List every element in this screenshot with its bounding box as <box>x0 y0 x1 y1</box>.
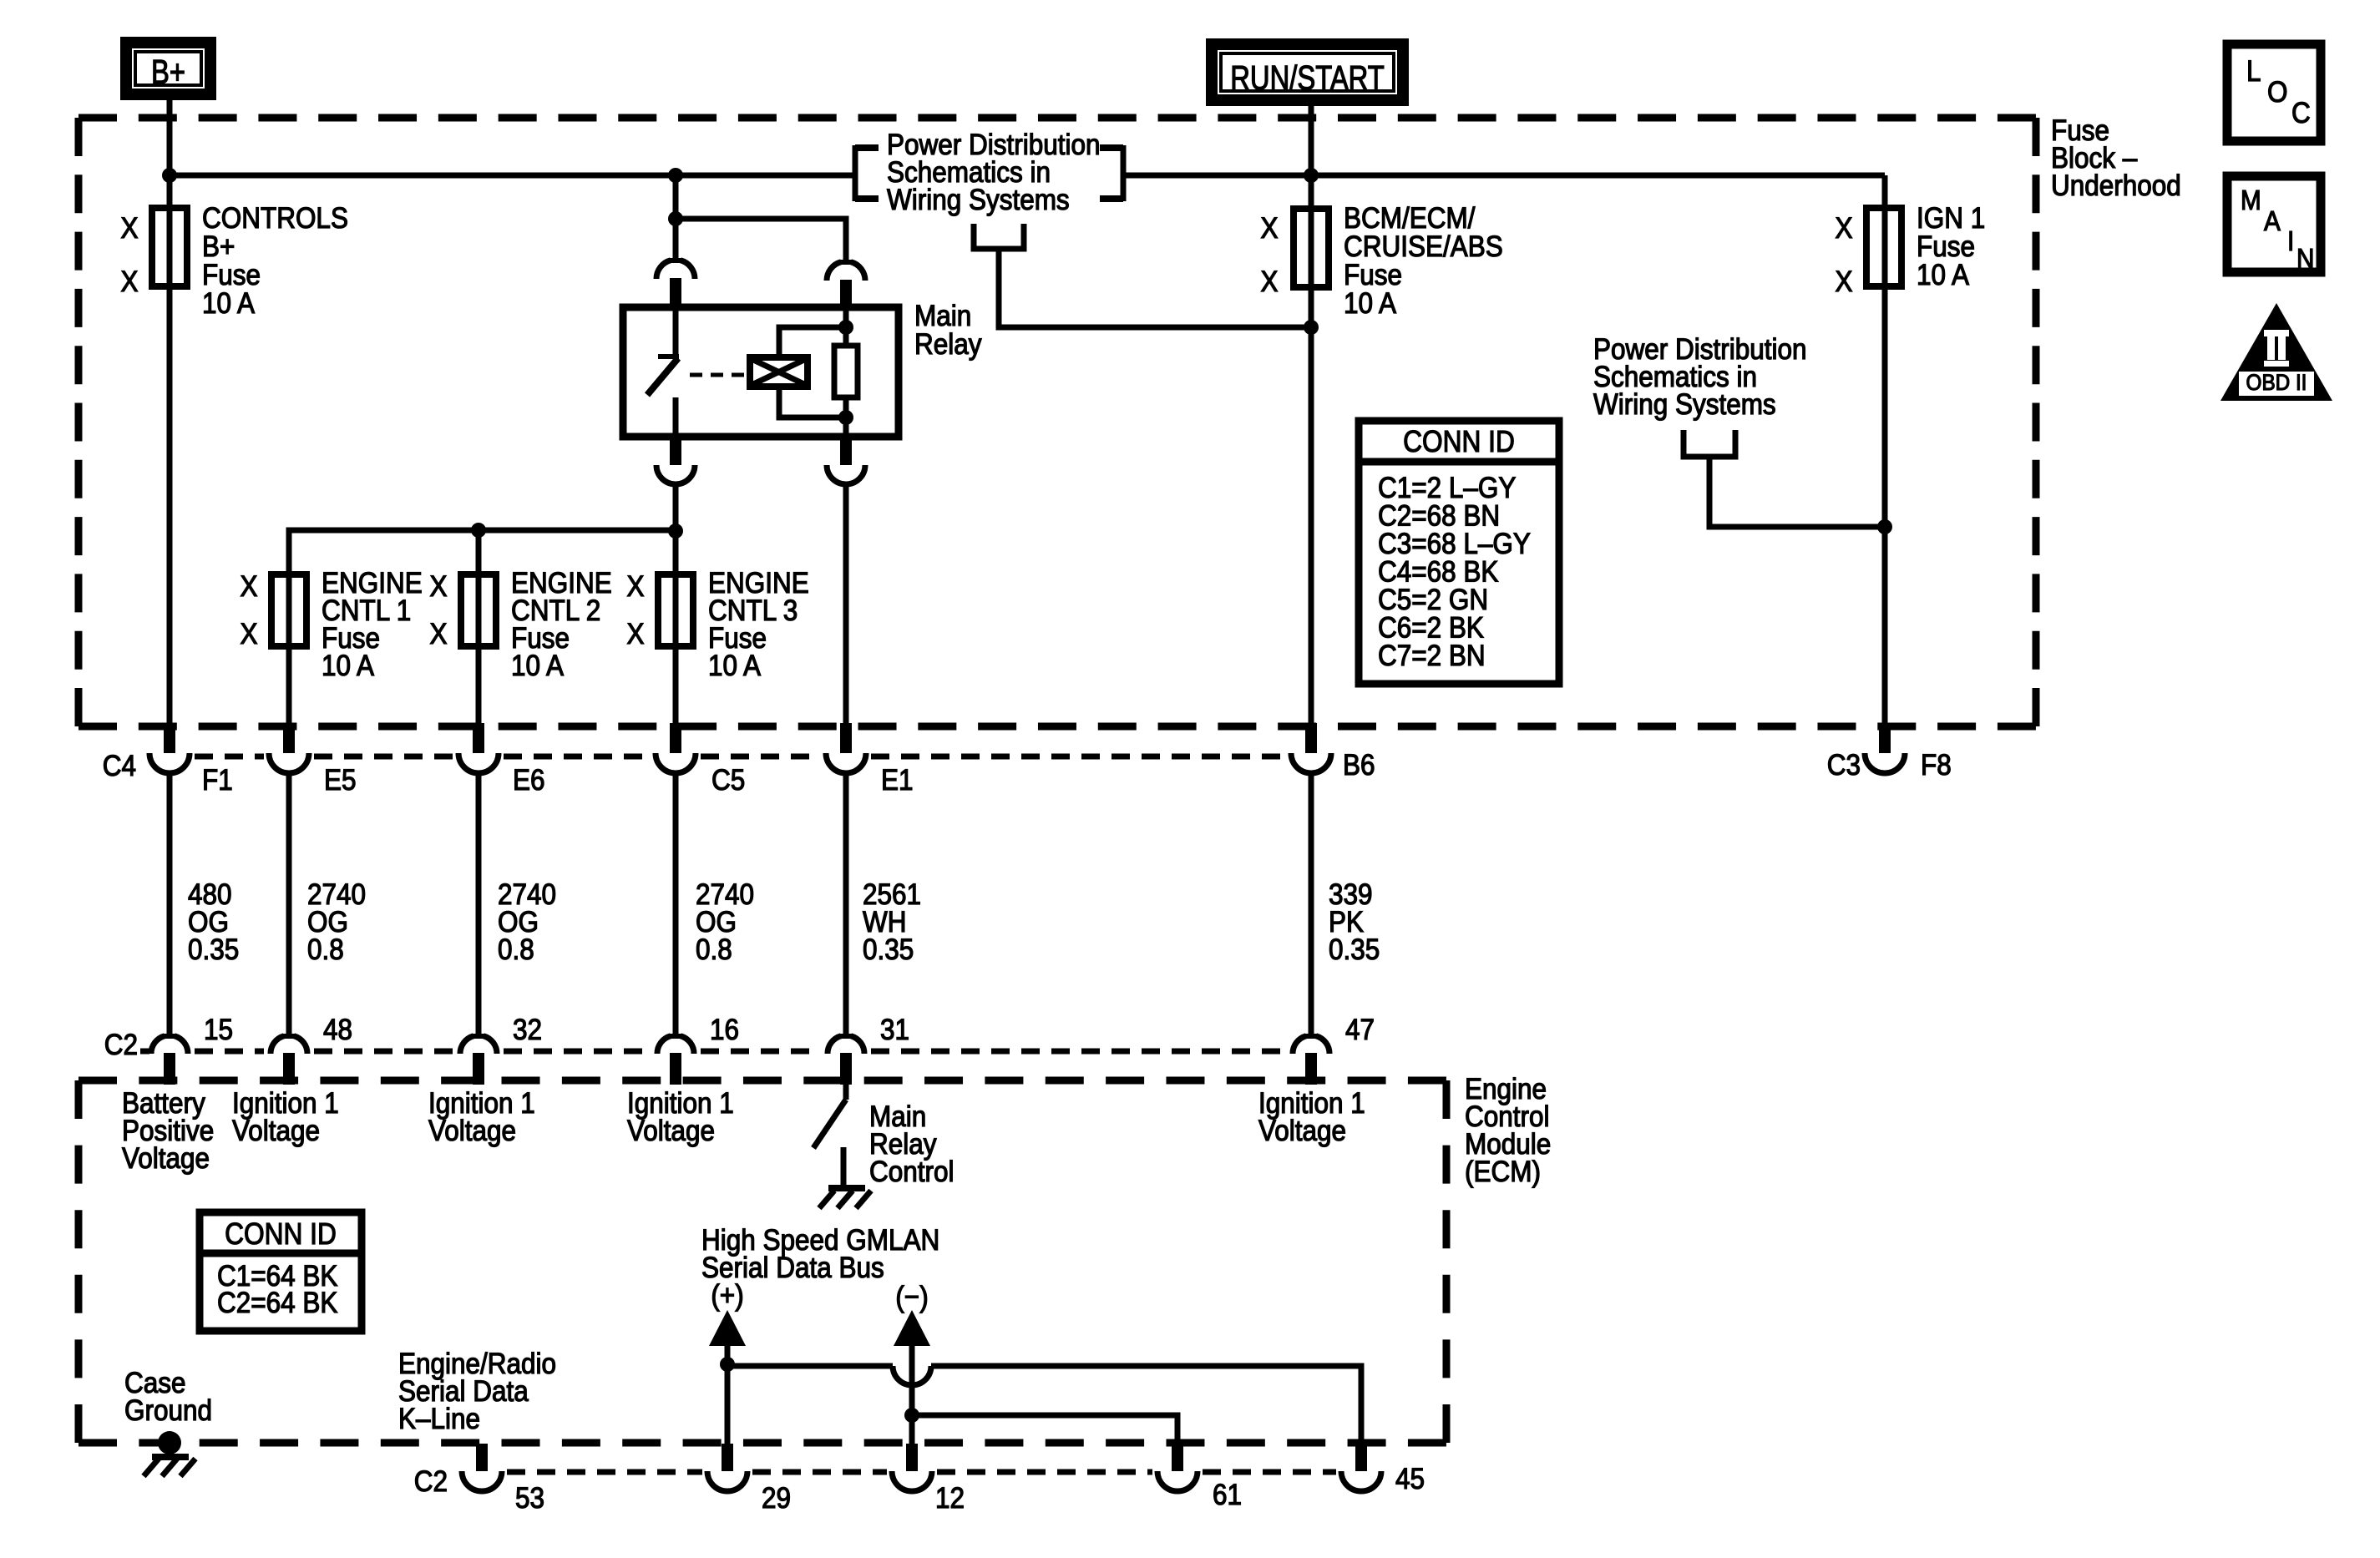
svg-text:0.8: 0.8 <box>498 934 534 967</box>
svg-text:0.35: 0.35 <box>188 934 239 967</box>
svg-text:X: X <box>1835 266 1852 299</box>
svg-text:K–Line: K–Line <box>398 1404 480 1436</box>
svg-text:F1: F1 <box>202 765 233 797</box>
svg-text:X: X <box>1835 213 1852 245</box>
svg-text:10 A: 10 A <box>708 650 762 683</box>
svg-text:0.35: 0.35 <box>1329 934 1380 967</box>
svg-text:X: X <box>120 213 138 245</box>
svg-text:X: X <box>626 619 644 651</box>
svg-text:O: O <box>2267 77 2287 109</box>
svg-text:RUN/START: RUN/START <box>1230 58 1385 96</box>
svg-text:X: X <box>240 619 257 651</box>
svg-text:X: X <box>626 571 644 604</box>
svg-text:C2=64 BK: C2=64 BK <box>217 1287 337 1320</box>
svg-text:10 A: 10 A <box>202 288 256 321</box>
svg-text:E1: E1 <box>881 765 914 797</box>
svg-text:E6: E6 <box>513 765 545 797</box>
svg-text:C2: C2 <box>104 1029 138 1062</box>
svg-text:N: N <box>2296 244 2314 275</box>
svg-text:10 A: 10 A <box>511 650 565 683</box>
svg-text:I: I <box>2287 226 2294 257</box>
svg-text:48: 48 <box>323 1014 352 1047</box>
svg-text:M: M <box>2241 185 2261 216</box>
svg-text:Voltage: Voltage <box>232 1115 320 1148</box>
svg-text:CONN ID: CONN ID <box>225 1217 337 1251</box>
svg-text:L: L <box>2246 56 2261 89</box>
svg-text:16: 16 <box>710 1014 739 1047</box>
svg-text:31: 31 <box>880 1014 909 1047</box>
svg-text:OBD II: OBD II <box>2246 371 2307 395</box>
svg-text:E5: E5 <box>324 765 357 797</box>
svg-text:Voltage: Voltage <box>428 1115 516 1148</box>
svg-text:X: X <box>429 619 447 651</box>
svg-text:C4: C4 <box>103 751 136 783</box>
svg-text:X: X <box>1260 213 1278 245</box>
svg-text:15: 15 <box>204 1014 233 1047</box>
svg-text:F8: F8 <box>1921 750 1952 782</box>
svg-text:CONN ID: CONN ID <box>1403 425 1515 458</box>
svg-text:29: 29 <box>762 1483 791 1515</box>
svg-text:Voltage: Voltage <box>122 1143 210 1176</box>
svg-text:Ground: Ground <box>124 1395 212 1428</box>
svg-text:32: 32 <box>513 1014 542 1047</box>
svg-text:0.8: 0.8 <box>307 934 344 967</box>
svg-text:47: 47 <box>1345 1014 1375 1047</box>
svg-text:(−): (−) <box>895 1282 928 1314</box>
svg-text:X: X <box>240 571 257 604</box>
svg-text:10 A: 10 A <box>322 650 375 683</box>
svg-text:53: 53 <box>515 1483 544 1515</box>
svg-text:A: A <box>2264 206 2281 237</box>
svg-text:Wiring Systems: Wiring Systems <box>887 185 1070 217</box>
svg-text:10 A: 10 A <box>1917 260 1970 292</box>
svg-text:C7=2 BN: C7=2 BN <box>1378 640 1486 673</box>
svg-text:Voltage: Voltage <box>627 1115 715 1148</box>
svg-text:Voltage: Voltage <box>1258 1115 1346 1148</box>
svg-text:C2: C2 <box>414 1466 448 1499</box>
svg-text:C3: C3 <box>1827 750 1861 782</box>
svg-text:B6: B6 <box>1343 750 1375 782</box>
svg-text:61: 61 <box>1213 1480 1242 1512</box>
svg-text:Control: Control <box>869 1156 955 1189</box>
svg-text:X: X <box>1260 266 1278 299</box>
svg-text:12: 12 <box>935 1483 965 1515</box>
svg-text:(+): (+) <box>711 1280 743 1313</box>
svg-text:B+: B+ <box>151 52 185 90</box>
svg-text:X: X <box>429 571 447 604</box>
svg-text:0.35: 0.35 <box>863 934 914 967</box>
svg-text:X: X <box>120 266 138 299</box>
svg-text:45: 45 <box>1395 1464 1425 1496</box>
svg-text:(ECM): (ECM) <box>1465 1156 1541 1189</box>
svg-text:10 A: 10 A <box>1344 288 1397 321</box>
svg-text:Underhood: Underhood <box>2051 170 2181 203</box>
svg-text:C: C <box>2291 98 2311 130</box>
svg-text:0.8: 0.8 <box>696 934 732 967</box>
svg-text:C5: C5 <box>711 765 745 797</box>
svg-text:Relay: Relay <box>914 329 982 362</box>
svg-text:Wiring Systems: Wiring Systems <box>1593 389 1776 422</box>
